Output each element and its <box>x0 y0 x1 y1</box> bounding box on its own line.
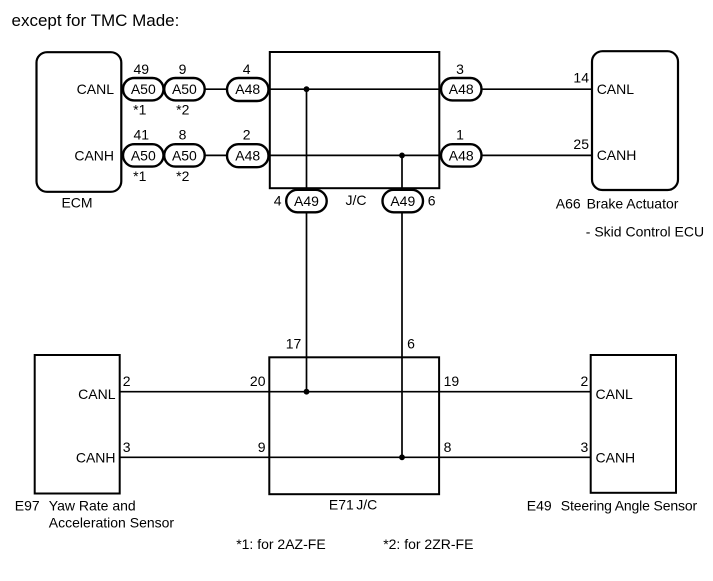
svg-text:4: 4 <box>243 61 251 77</box>
svg-text:*1: *1 <box>133 102 146 118</box>
svg-text:A48: A48 <box>235 147 260 163</box>
svg-text:A50: A50 <box>172 81 197 97</box>
svg-text:CANH: CANH <box>596 450 636 466</box>
svg-text:*1: *1 <box>133 168 146 184</box>
svg-text:A49: A49 <box>294 193 319 209</box>
svg-text:A49: A49 <box>390 193 415 209</box>
svg-text:9: 9 <box>258 439 266 455</box>
svg-text:14: 14 <box>573 70 589 86</box>
svg-text:2: 2 <box>243 126 251 142</box>
svg-text:A50: A50 <box>172 147 197 163</box>
svg-text:Acceleration Sensor: Acceleration Sensor <box>49 514 175 530</box>
svg-text:except for TMC Made:: except for TMC Made: <box>12 11 180 30</box>
svg-text:9: 9 <box>179 61 187 77</box>
svg-text:4: 4 <box>274 193 282 209</box>
svg-text:Brake Actuator: Brake Actuator <box>587 196 679 212</box>
svg-text:19: 19 <box>444 373 460 389</box>
svg-text:A50: A50 <box>131 81 156 97</box>
svg-text:A48: A48 <box>449 81 474 97</box>
svg-text:E71: E71 <box>329 496 354 512</box>
svg-text:2: 2 <box>123 373 131 389</box>
svg-text:20: 20 <box>250 373 266 389</box>
svg-text:*1: for 2AZ-FE: *1: for 2AZ-FE <box>236 536 325 552</box>
svg-text:J/C: J/C <box>356 496 377 512</box>
svg-text:3: 3 <box>581 439 589 455</box>
svg-text:A48: A48 <box>235 81 260 97</box>
svg-text:*2: *2 <box>176 168 189 184</box>
svg-text:3: 3 <box>123 439 131 455</box>
svg-text:8: 8 <box>179 126 187 142</box>
svg-text:*2: *2 <box>176 102 189 118</box>
svg-text:6: 6 <box>428 193 436 209</box>
svg-text:41: 41 <box>134 126 150 142</box>
svg-text:6: 6 <box>407 336 415 352</box>
svg-text:3: 3 <box>456 61 464 77</box>
svg-text:A48: A48 <box>449 147 474 163</box>
svg-text:CANL: CANL <box>78 386 116 402</box>
svg-text:Steering Angle Sensor: Steering Angle Sensor <box>561 497 698 513</box>
svg-text:CANL: CANL <box>596 386 634 402</box>
svg-text:Yaw Rate and: Yaw Rate and <box>49 497 136 513</box>
svg-text:CANH: CANH <box>76 450 116 466</box>
svg-text:E49: E49 <box>527 497 552 513</box>
svg-text:2: 2 <box>581 373 589 389</box>
svg-text:CANH: CANH <box>597 147 637 163</box>
svg-text:1: 1 <box>456 126 464 142</box>
svg-text:E97: E97 <box>15 497 40 513</box>
svg-text:*2: for 2ZR-FE: *2: for 2ZR-FE <box>383 536 473 552</box>
svg-text:J/C: J/C <box>346 192 367 208</box>
svg-text:CANL: CANL <box>597 81 635 97</box>
svg-text:A50: A50 <box>131 147 156 163</box>
svg-text:25: 25 <box>573 136 589 152</box>
svg-text:CANH: CANH <box>74 147 114 163</box>
svg-text:49: 49 <box>134 61 150 77</box>
svg-text:- Skid Control ECU: - Skid Control ECU <box>586 224 704 240</box>
svg-text:A66: A66 <box>556 196 581 212</box>
svg-text:8: 8 <box>444 439 452 455</box>
svg-text:CANL: CANL <box>77 81 115 97</box>
svg-text:ECM: ECM <box>61 195 92 211</box>
svg-text:17: 17 <box>286 336 302 352</box>
